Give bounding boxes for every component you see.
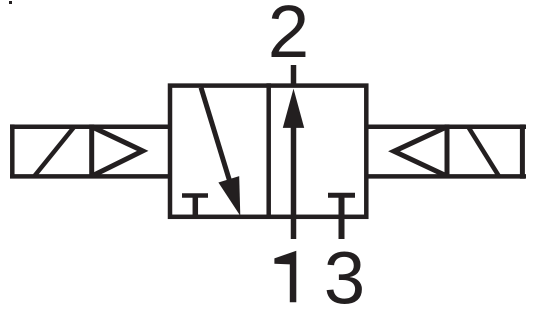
svg-text:2: 2 — [268, 0, 309, 73]
svg-text:3: 3 — [324, 237, 365, 319]
